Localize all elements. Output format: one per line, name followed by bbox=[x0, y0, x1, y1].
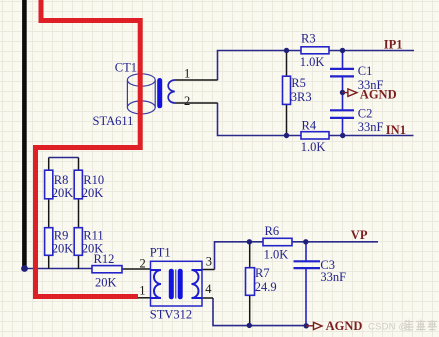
svg-text:C2: C2 bbox=[358, 106, 373, 120]
svg-text:3: 3 bbox=[206, 255, 212, 269]
svg-text:1: 1 bbox=[139, 283, 145, 297]
svg-text:24.9: 24.9 bbox=[255, 280, 277, 294]
svg-text:R8: R8 bbox=[54, 173, 69, 187]
svg-text:VP: VP bbox=[351, 228, 368, 242]
svg-text:R3: R3 bbox=[301, 32, 316, 46]
svg-text:1.0K: 1.0K bbox=[300, 55, 325, 69]
svg-text:20K: 20K bbox=[52, 242, 74, 256]
svg-text:1: 1 bbox=[184, 66, 190, 80]
svg-text:1.0K: 1.0K bbox=[301, 140, 326, 154]
svg-text:IN1: IN1 bbox=[386, 123, 406, 137]
svg-text:AGND: AGND bbox=[326, 319, 363, 333]
svg-text:PT1: PT1 bbox=[150, 246, 171, 260]
svg-text:20K: 20K bbox=[82, 186, 104, 200]
svg-text:IP1: IP1 bbox=[384, 37, 403, 51]
svg-text:R12: R12 bbox=[94, 252, 115, 266]
svg-text:33nF: 33nF bbox=[358, 120, 384, 134]
svg-text:1.0K: 1.0K bbox=[264, 248, 289, 262]
svg-text:20K: 20K bbox=[52, 186, 74, 200]
svg-text:C1: C1 bbox=[358, 64, 373, 78]
svg-text:R9: R9 bbox=[54, 228, 69, 242]
svg-text:R4: R4 bbox=[302, 118, 317, 132]
svg-text:R7: R7 bbox=[255, 266, 270, 280]
svg-text:20K: 20K bbox=[95, 275, 117, 289]
svg-text:STV312: STV312 bbox=[150, 308, 192, 322]
svg-text:R5: R5 bbox=[291, 76, 306, 90]
svg-text:STA611: STA611 bbox=[93, 114, 134, 128]
svg-text:2: 2 bbox=[184, 94, 190, 108]
svg-text:4: 4 bbox=[205, 282, 212, 296]
svg-text:R10: R10 bbox=[83, 173, 104, 187]
svg-text:CT1: CT1 bbox=[115, 60, 137, 74]
svg-text:2: 2 bbox=[140, 256, 146, 270]
svg-text:33nF: 33nF bbox=[320, 270, 346, 284]
svg-text:3R3: 3R3 bbox=[291, 90, 312, 104]
svg-text:AGND: AGND bbox=[360, 87, 397, 101]
svg-text:R11: R11 bbox=[83, 228, 103, 242]
svg-text:CSDN @: CSDN @ bbox=[368, 322, 408, 333]
svg-text:R6: R6 bbox=[265, 224, 280, 238]
